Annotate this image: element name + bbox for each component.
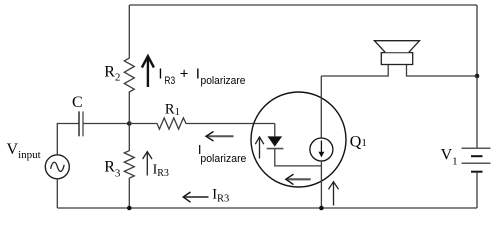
current arrow (gray) Ipolarizare under R1 — [207, 135, 234, 137]
wire: source bottom lead — [56, 179, 58, 208]
svg-text:+: + — [180, 66, 189, 83]
wire: right vertical from top rail down to speaker junction — [476, 5, 478, 76]
node: emitter bottom dot — [319, 206, 324, 211]
wire: collector from speaker wire corner down to current source — [320, 76, 322, 138]
wire: diode bottom down and right to emitter line — [275, 149, 322, 166]
svg-text:polarizare: polarizare — [201, 75, 246, 87]
current arrow (thin up) left of diode — [255, 137, 263, 159]
current arrow (gray left) inside Q1 bottom — [287, 178, 311, 180]
resistor R1 (horizontal, node to transistor base) — [129, 118, 274, 129]
current arrow (gray left) IR3 on bottom rail — [184, 196, 209, 198]
current arrow (bold) for IR3+Ipolarizare — [142, 56, 154, 87]
wire: emitter from current source to bottom rail — [320, 161, 322, 208]
resistor R3 (vertical, middle node to bottom rail) — [124, 124, 134, 209]
wire: source top lead up and right to capacitor — [57, 124, 79, 155]
source Vinput: AC source circle — [45, 155, 69, 179]
svg-text:polarizare: polarizare — [200, 153, 246, 165]
wire: base corner down to diode — [274, 124, 276, 137]
wire: collector corner to speaker left leg — [321, 65, 388, 77]
node: middle node dot — [127, 121, 132, 126]
wire: right vertical from junction to battery top — [476, 76, 478, 148]
battery V1 plates — [462, 148, 491, 171]
current arrow (thin) IR3 beside R3 — [143, 152, 152, 176]
wire: speaker right leg to right junction — [407, 65, 478, 77]
svg-text:I: I — [158, 65, 162, 82]
node: R3 bottom dot — [127, 206, 132, 211]
current source down arrow — [320, 141, 322, 154]
wire: top horizontal rail — [129, 4, 477, 6]
transistor Q1 model circle — [251, 92, 346, 187]
wire: bottom horizontal rail — [57, 207, 477, 209]
node: speaker/battery junction dot — [475, 74, 480, 79]
sine wave inside source — [51, 162, 65, 171]
speaker cone — [374, 41, 419, 53]
speaker box — [381, 53, 412, 65]
svg-text:I: I — [196, 66, 200, 83]
current source circle inside Q1 — [310, 138, 333, 161]
capacitor C plates — [78, 111, 80, 136]
diode inside Q1 (filled triangle) — [268, 136, 283, 146]
resistor R2 (vertical, top rail to middle node) — [124, 5, 134, 124]
wire: capacitor to middle node — [83, 123, 129, 125]
svg-text:C: C — [72, 94, 83, 111]
diode cathode bar — [267, 148, 284, 150]
current arrow (thin up) beside emitter below Q1 — [329, 182, 339, 206]
svg-text:R3: R3 — [164, 75, 175, 87]
wire: battery bottom to bottom rail — [476, 172, 478, 208]
